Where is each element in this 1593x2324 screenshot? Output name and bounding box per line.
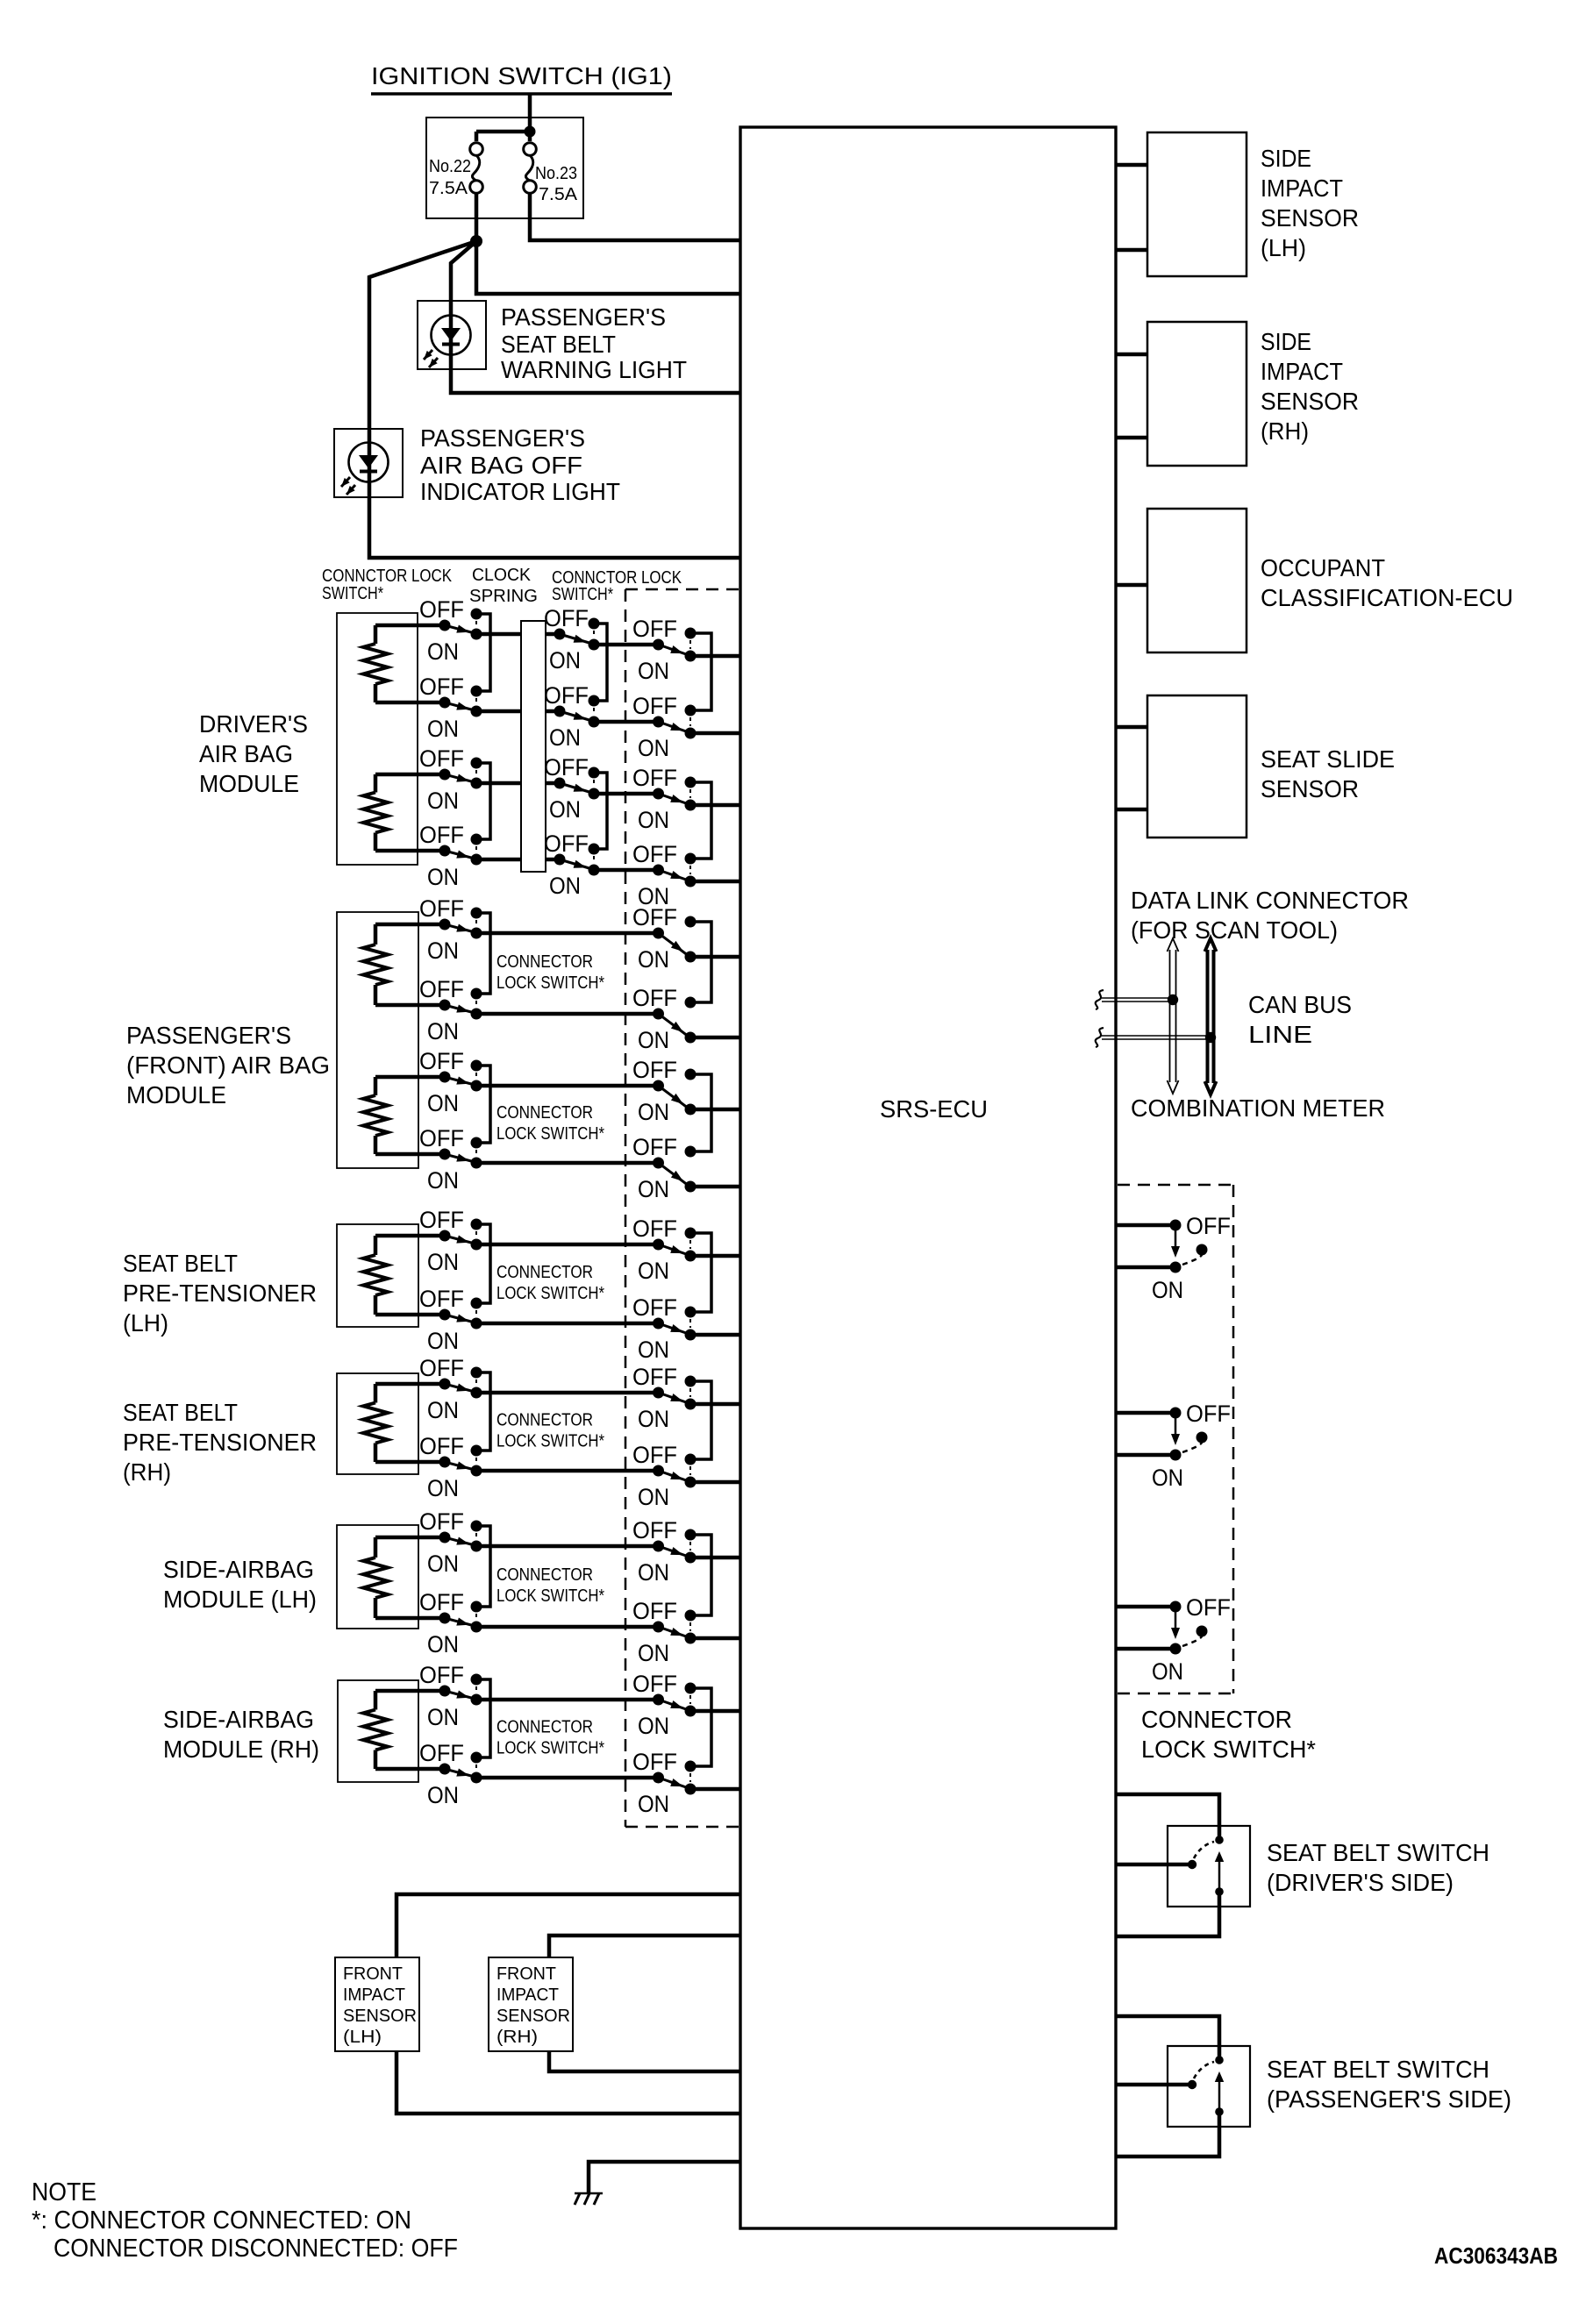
- svg-text:OFF: OFF: [632, 1598, 677, 1624]
- svg-text:ON: ON: [638, 1791, 669, 1817]
- svg-text:OFF: OFF: [544, 754, 589, 781]
- svg-text:IMPACT: IMPACT: [343, 1985, 405, 2005]
- svg-text:OFF: OFF: [544, 605, 589, 631]
- svg-text:CONNECTOR: CONNECTOR: [496, 1565, 593, 1585]
- svg-text:OFF: OFF: [419, 745, 464, 772]
- svg-text:OFF: OFF: [419, 1125, 464, 1151]
- svg-text:(LH): (LH): [1261, 234, 1306, 261]
- svg-text:ON: ON: [1152, 1277, 1183, 1303]
- svg-text:FRONT: FRONT: [496, 1964, 556, 1984]
- svg-text:ON: ON: [427, 788, 459, 814]
- svg-text:AIR BAG: AIR BAG: [199, 740, 293, 767]
- svg-text:LOCK SWITCH*: LOCK SWITCH*: [496, 1124, 604, 1144]
- svg-text:ON: ON: [638, 1337, 669, 1363]
- svg-text:ON: ON: [427, 1704, 459, 1730]
- svg-text:(LH): (LH): [123, 1309, 168, 1337]
- svg-text:ON: ON: [549, 796, 581, 823]
- svg-text:SIDE: SIDE: [1261, 328, 1311, 355]
- svg-text:SEAT BELT SWITCH: SEAT BELT SWITCH: [1267, 1839, 1489, 1866]
- svg-text:OFF: OFF: [1186, 1213, 1231, 1239]
- svg-text:SPRING: SPRING: [469, 587, 538, 606]
- svg-text:LOCK SWITCH*: LOCK SWITCH*: [496, 1284, 604, 1303]
- svg-text:PASSENGER'S: PASSENGER'S: [126, 1022, 291, 1049]
- svg-text:SWITCH*: SWITCH*: [552, 585, 613, 604]
- svg-text:OFF: OFF: [544, 682, 589, 709]
- svg-text:CONNECTOR: CONNECTOR: [1141, 1706, 1292, 1733]
- svg-text:AIR BAG OFF: AIR BAG OFF: [420, 452, 582, 479]
- svg-text:ON: ON: [638, 1258, 669, 1284]
- svg-text:ON: ON: [427, 638, 459, 665]
- svg-text:SEAT BELT: SEAT BELT: [123, 1250, 238, 1277]
- svg-text:WARNING LIGHT: WARNING LIGHT: [501, 356, 687, 383]
- svg-text:OFF: OFF: [632, 1749, 677, 1775]
- svg-text:OFF: OFF: [419, 1508, 464, 1535]
- svg-text:ON: ON: [638, 1640, 669, 1666]
- svg-text:CLOCK: CLOCK: [472, 566, 532, 585]
- svg-text:LOCK SWITCH*: LOCK SWITCH*: [496, 973, 604, 993]
- svg-text:OFF: OFF: [632, 904, 677, 930]
- svg-text:*: CONNECTOR CONNECTED: ON: *: CONNECTOR CONNECTED: ON: [32, 2206, 411, 2235]
- svg-text:OFF: OFF: [419, 822, 464, 848]
- svg-text:MODULE (RH): MODULE (RH): [163, 1736, 319, 1763]
- svg-text:OFF: OFF: [544, 831, 589, 857]
- svg-text:OFF: OFF: [419, 1740, 464, 1766]
- svg-text:SEAT BELT SWITCH: SEAT BELT SWITCH: [1267, 2056, 1489, 2083]
- svg-text:(FOR SCAN TOOL): (FOR SCAN TOOL): [1131, 916, 1338, 944]
- svg-text:(RH): (RH): [123, 1458, 171, 1486]
- svg-text:LOCK SWITCH*: LOCK SWITCH*: [496, 1586, 604, 1606]
- svg-text:IMPACT: IMPACT: [496, 1985, 559, 2005]
- svg-text:(RH): (RH): [496, 2028, 538, 2047]
- svg-text:PASSENGER'S: PASSENGER'S: [501, 303, 666, 331]
- svg-text:OFF: OFF: [419, 1048, 464, 1074]
- svg-text:SEAT BELT: SEAT BELT: [123, 1399, 238, 1426]
- svg-text:7.5A: 7.5A: [429, 179, 468, 198]
- svg-text:MODULE (LH): MODULE (LH): [163, 1586, 317, 1613]
- svg-text:DRIVER'S: DRIVER'S: [199, 710, 308, 738]
- svg-text:OFF: OFF: [1186, 1401, 1231, 1427]
- svg-text:ON: ON: [427, 716, 459, 742]
- svg-text:INDICATOR LIGHT: INDICATOR LIGHT: [420, 478, 620, 505]
- svg-text:SENSOR: SENSOR: [496, 2007, 570, 2026]
- svg-text:ON: ON: [427, 864, 459, 890]
- svg-text:SENSOR: SENSOR: [1261, 388, 1359, 415]
- svg-text:SRS-ECU: SRS-ECU: [880, 1095, 988, 1123]
- svg-text:(DRIVER'S SIDE): (DRIVER'S SIDE): [1267, 1869, 1454, 1896]
- svg-text:OFF: OFF: [419, 596, 464, 623]
- svg-text:ON: ON: [427, 1167, 459, 1194]
- svg-text:ON: ON: [638, 1484, 669, 1510]
- svg-text:OFF: OFF: [632, 985, 677, 1011]
- svg-text:IMPACT: IMPACT: [1261, 175, 1343, 202]
- svg-text:NOTE: NOTE: [32, 2178, 96, 2206]
- svg-text:LINE: LINE: [1248, 1021, 1312, 1048]
- svg-text:ON: ON: [427, 1328, 459, 1354]
- svg-text:MODULE: MODULE: [199, 770, 299, 797]
- svg-text:No.22: No.22: [429, 157, 471, 176]
- svg-text:ON: ON: [638, 1176, 669, 1202]
- svg-text:CLASSIFICATION-ECU: CLASSIFICATION-ECU: [1261, 584, 1513, 611]
- svg-text:CONNECTOR: CONNECTOR: [496, 1263, 593, 1282]
- svg-text:OFF: OFF: [419, 976, 464, 1002]
- svg-text:(PASSENGER'S SIDE): (PASSENGER'S SIDE): [1267, 2085, 1511, 2113]
- svg-text:OFF: OFF: [632, 1364, 677, 1390]
- svg-text:OFF: OFF: [419, 895, 464, 922]
- svg-text:OFF: OFF: [419, 1433, 464, 1459]
- svg-text:SENSOR: SENSOR: [1261, 775, 1359, 802]
- svg-text:OFF: OFF: [632, 1057, 677, 1083]
- svg-text:COMBINATION METER: COMBINATION METER: [1131, 1094, 1385, 1122]
- svg-text:ON: ON: [638, 807, 669, 833]
- svg-text:OFF: OFF: [632, 1442, 677, 1468]
- svg-text:FRONT: FRONT: [343, 1964, 403, 1984]
- svg-text:OFF: OFF: [632, 1517, 677, 1543]
- svg-text:IGNITION SWITCH (IG1): IGNITION SWITCH (IG1): [371, 62, 672, 89]
- svg-text:SENSOR: SENSOR: [1261, 204, 1359, 232]
- svg-text:OFF: OFF: [419, 1589, 464, 1615]
- svg-text:OFF: OFF: [419, 1355, 464, 1381]
- svg-text:OFF: OFF: [632, 693, 677, 719]
- svg-text:OFF: OFF: [419, 674, 464, 700]
- svg-text:CONNECTOR: CONNECTOR: [496, 952, 593, 972]
- svg-text:OFF: OFF: [632, 1671, 677, 1697]
- svg-text:CONNECTOR: CONNECTOR: [496, 1103, 593, 1123]
- svg-text:ON: ON: [638, 1406, 669, 1432]
- svg-text:ON: ON: [549, 647, 581, 674]
- svg-text:ON: ON: [427, 1018, 459, 1044]
- svg-text:No.23: No.23: [535, 164, 577, 183]
- svg-text:PASSENGER'S: PASSENGER'S: [420, 424, 585, 452]
- svg-text:(RH): (RH): [1261, 417, 1309, 445]
- svg-text:MODULE: MODULE: [126, 1081, 226, 1109]
- svg-text:CONNECTOR: CONNECTOR: [496, 1411, 593, 1430]
- svg-text:CONNECTOR DISCONNECTED: OFF: CONNECTOR DISCONNECTED: OFF: [54, 2235, 458, 2263]
- svg-text:LOCK SWITCH*: LOCK SWITCH*: [1141, 1736, 1316, 1763]
- svg-text:OFF: OFF: [419, 1286, 464, 1312]
- svg-text:CONNECTOR: CONNECTOR: [496, 1718, 593, 1737]
- svg-text:ON: ON: [427, 1551, 459, 1577]
- svg-text:ON: ON: [549, 724, 581, 751]
- svg-text:AC306343AB: AC306343AB: [1434, 2242, 1558, 2269]
- svg-text:OFF: OFF: [1186, 1594, 1231, 1621]
- svg-text:SIDE: SIDE: [1261, 145, 1311, 172]
- svg-text:ON: ON: [638, 1099, 669, 1125]
- svg-text:ON: ON: [638, 1713, 669, 1739]
- svg-text:LOCK SWITCH*: LOCK SWITCH*: [496, 1432, 604, 1451]
- svg-text:7.5A: 7.5A: [539, 185, 578, 204]
- svg-text:OFF: OFF: [632, 616, 677, 642]
- svg-text:SEAT BELT: SEAT BELT: [501, 331, 616, 358]
- svg-text:LOCK SWITCH*: LOCK SWITCH*: [496, 1739, 604, 1758]
- svg-text:ON: ON: [638, 1559, 669, 1586]
- svg-text:OFF: OFF: [632, 1215, 677, 1242]
- svg-text:ON: ON: [427, 1090, 459, 1116]
- svg-text:CAN BUS: CAN BUS: [1248, 991, 1352, 1018]
- svg-text:(FRONT) AIR BAG: (FRONT) AIR BAG: [126, 1052, 330, 1079]
- svg-text:ON: ON: [549, 873, 581, 899]
- svg-text:PRE-TENSIONER: PRE-TENSIONER: [123, 1429, 317, 1456]
- svg-text:ON: ON: [427, 1782, 459, 1808]
- svg-text:ON: ON: [638, 658, 669, 684]
- svg-text:OFF: OFF: [419, 1662, 464, 1688]
- svg-text:PRE-TENSIONER: PRE-TENSIONER: [123, 1280, 317, 1307]
- svg-text:ON: ON: [638, 1027, 669, 1053]
- svg-text:ON: ON: [638, 946, 669, 973]
- svg-text:SENSOR: SENSOR: [343, 2007, 417, 2026]
- svg-text:CONNCTOR LOCK: CONNCTOR LOCK: [322, 567, 453, 586]
- svg-text:OFF: OFF: [632, 765, 677, 791]
- svg-text:ON: ON: [1152, 1658, 1183, 1685]
- svg-text:IMPACT: IMPACT: [1261, 358, 1343, 385]
- svg-text:ON: ON: [427, 1631, 459, 1657]
- svg-text:OFF: OFF: [632, 1294, 677, 1321]
- svg-text:SIDE-AIRBAG: SIDE-AIRBAG: [163, 1706, 314, 1733]
- svg-text:ON: ON: [1152, 1465, 1183, 1491]
- svg-text:OCCUPANT: OCCUPANT: [1261, 554, 1385, 581]
- svg-text:ON: ON: [427, 1397, 459, 1423]
- svg-text:OFF: OFF: [419, 1207, 464, 1233]
- svg-text:ON: ON: [427, 1475, 459, 1501]
- svg-text:DATA LINK CONNECTOR: DATA LINK CONNECTOR: [1131, 887, 1409, 914]
- svg-text:SWITCH*: SWITCH*: [322, 584, 383, 603]
- svg-text:ON: ON: [427, 937, 459, 964]
- svg-text:(LH): (LH): [343, 2028, 382, 2047]
- svg-text:ON: ON: [638, 735, 669, 761]
- svg-text:OFF: OFF: [632, 1134, 677, 1160]
- svg-text:SIDE-AIRBAG: SIDE-AIRBAG: [163, 1556, 314, 1583]
- svg-text:OFF: OFF: [632, 841, 677, 867]
- svg-text:ON: ON: [427, 1249, 459, 1275]
- svg-text:SEAT SLIDE: SEAT SLIDE: [1261, 745, 1395, 773]
